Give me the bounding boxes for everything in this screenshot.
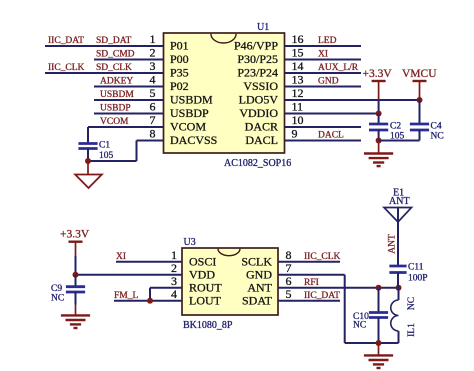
svg-text:ANT: ANT [389, 196, 410, 207]
svg-text:LDO5V: LDO5V [239, 93, 279, 107]
svg-text:IIC_CLK: IIC_CLK [304, 252, 341, 262]
svg-text:C11: C11 [408, 263, 424, 273]
svg-text:+3.3V: +3.3V [363, 68, 393, 80]
svg-text:4: 4 [150, 73, 156, 87]
svg-text:U3: U3 [184, 237, 196, 248]
svg-text:VDDIO: VDDIO [239, 106, 278, 120]
svg-text:5: 5 [150, 86, 156, 100]
svg-text:VDD: VDD [189, 267, 215, 281]
svg-text:DACL: DACL [318, 131, 344, 141]
svg-text:XI: XI [318, 50, 328, 60]
svg-text:6: 6 [150, 100, 156, 114]
svg-text:VSSIO: VSSIO [243, 79, 278, 93]
svg-text:GND: GND [318, 77, 339, 87]
svg-text:8: 8 [150, 127, 156, 141]
svg-text:12: 12 [292, 86, 304, 100]
svg-text:USBDM: USBDM [100, 90, 134, 100]
svg-text:11: 11 [292, 100, 304, 114]
svg-text:USBDP: USBDP [170, 106, 209, 120]
svg-text:U1: U1 [257, 22, 269, 33]
svg-text:SDAT: SDAT [242, 293, 273, 307]
svg-text:SD_CLK: SD_CLK [96, 63, 132, 73]
svg-text:P23/P24: P23/P24 [237, 66, 278, 80]
svg-text:1: 1 [171, 248, 177, 262]
svg-text:3: 3 [150, 59, 156, 73]
svg-text:USBDP: USBDP [100, 104, 131, 114]
svg-text:SD_DAT: SD_DAT [96, 36, 132, 46]
svg-text:RFI: RFI [304, 278, 319, 288]
svg-text:IL1: IL1 [407, 323, 417, 337]
svg-text:OSCI: OSCI [189, 254, 216, 268]
svg-text:AUX_L/R: AUX_L/R [318, 63, 359, 73]
svg-text:8: 8 [286, 248, 292, 262]
svg-text:P00: P00 [170, 52, 189, 66]
svg-text:GND: GND [246, 267, 272, 281]
svg-text:VCOM: VCOM [100, 117, 129, 127]
svg-text:P30/P25: P30/P25 [237, 52, 278, 66]
svg-text:ADKEY: ADKEY [100, 77, 133, 87]
svg-text:P02: P02 [170, 79, 189, 93]
svg-text:14: 14 [292, 59, 304, 73]
svg-text:SD_CMD: SD_CMD [96, 50, 135, 60]
svg-text:XI: XI [116, 252, 126, 262]
svg-text:IIC_CLK: IIC_CLK [48, 63, 85, 73]
svg-text:16: 16 [292, 32, 304, 46]
svg-text:+3.3V: +3.3V [60, 229, 90, 241]
svg-text:BK1080_8P: BK1080_8P [183, 320, 233, 331]
svg-text:SCLK: SCLK [241, 254, 272, 268]
svg-text:FM_L: FM_L [114, 291, 138, 301]
svg-text:NC: NC [407, 297, 417, 310]
svg-text:7: 7 [150, 113, 156, 127]
svg-text:P01: P01 [170, 39, 189, 53]
svg-text:LOUT: LOUT [189, 293, 222, 307]
svg-text:2: 2 [171, 261, 177, 275]
svg-text:3: 3 [171, 274, 177, 288]
svg-text:P46/VPP: P46/VPP [234, 39, 278, 53]
svg-text:9: 9 [292, 127, 298, 141]
svg-text:1: 1 [150, 32, 156, 46]
svg-text:NC: NC [353, 321, 366, 331]
svg-text:105: 105 [390, 132, 405, 142]
svg-text:105: 105 [99, 151, 114, 161]
svg-text:2: 2 [150, 46, 156, 60]
svg-text:5: 5 [286, 287, 292, 301]
svg-text:VMCU: VMCU [402, 68, 437, 80]
svg-text:USBDM: USBDM [170, 93, 213, 107]
svg-text:DACVSS: DACVSS [170, 133, 217, 147]
svg-text:4: 4 [171, 287, 177, 301]
svg-text:NC: NC [51, 294, 64, 304]
svg-text:VCOM: VCOM [170, 120, 206, 134]
svg-text:IIC_DAT: IIC_DAT [48, 36, 84, 46]
svg-text:15: 15 [292, 46, 304, 60]
svg-text:C1: C1 [99, 141, 110, 151]
svg-text:6: 6 [286, 274, 292, 288]
svg-text:7: 7 [286, 261, 292, 275]
svg-text:ANT: ANT [388, 234, 398, 254]
svg-text:NC: NC [431, 132, 444, 142]
svg-text:IIC_DAT: IIC_DAT [304, 291, 340, 301]
svg-text:C2: C2 [390, 122, 401, 132]
svg-text:ROUT: ROUT [189, 280, 222, 294]
svg-text:100P: 100P [408, 274, 428, 284]
svg-text:P35: P35 [170, 66, 189, 80]
svg-text:DACL: DACL [245, 133, 278, 147]
svg-text:AC1082_SOP16: AC1082_SOP16 [224, 158, 291, 169]
svg-text:C4: C4 [431, 122, 442, 132]
svg-text:10: 10 [292, 113, 304, 127]
svg-text:LED: LED [318, 36, 337, 46]
svg-text:C9: C9 [51, 284, 62, 294]
svg-text:DACR: DACR [245, 120, 278, 134]
svg-text:13: 13 [292, 73, 304, 87]
svg-text:ANT: ANT [247, 280, 272, 294]
